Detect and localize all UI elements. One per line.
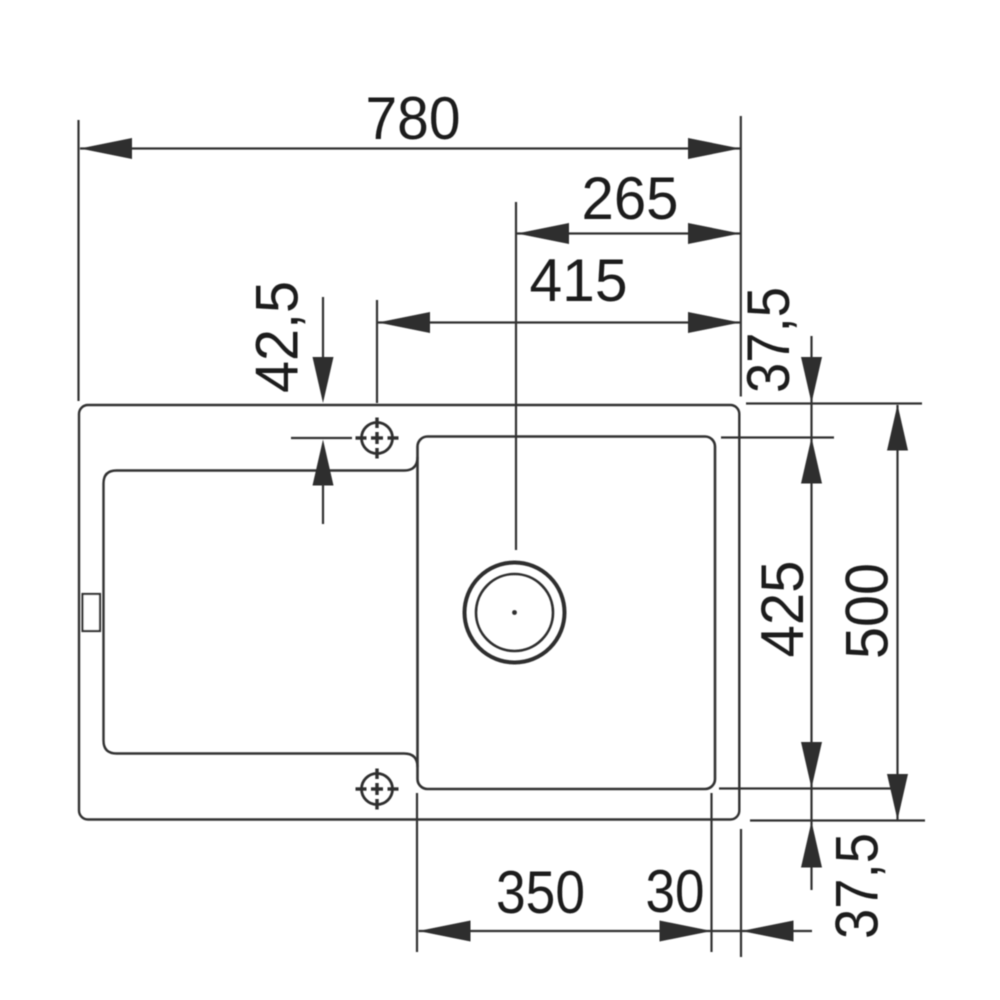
sink bottom edge extension right	[750, 819, 925, 821]
faucet centerline extension	[376, 300, 378, 403]
dim 350 extension right	[710, 793, 712, 952]
svg-text:350: 350	[496, 859, 585, 926]
dim 425 arrow up	[801, 438, 822, 484]
svg-text:500: 500	[834, 563, 901, 659]
dim 500 line	[896, 405, 898, 820]
crosshair left extension dash	[291, 437, 352, 439]
drain center dot	[512, 610, 517, 615]
dim 42,5 arrow down	[313, 357, 334, 403]
dim 30 extension right	[740, 829, 742, 957]
svg-text:42,5: 42,5	[244, 281, 311, 393]
dim 780 extension left	[77, 120, 79, 401]
bowl bottom edge extension right	[719, 787, 892, 789]
dim 415 line	[378, 321, 740, 323]
drainer board outline	[104, 457, 418, 767]
bowl outline	[418, 437, 716, 790]
bowl top edge extension right	[721, 436, 834, 438]
svg-text:780: 780	[366, 85, 461, 152]
faucet hole top crosshair	[356, 418, 399, 459]
dim right extension line (780/265/415)	[740, 116, 742, 397]
dim 415 arrow right	[688, 312, 740, 333]
dim 37,5/425/37,5 vertical line	[810, 336, 812, 890]
dim 415 arrow left	[378, 312, 430, 333]
dim 37,5 bottom arrow up	[801, 822, 822, 868]
dim 350 arrow right	[660, 921, 712, 942]
overflow notch	[83, 594, 101, 631]
drain centerline	[515, 202, 517, 550]
dim 37,5 top arrow down	[801, 357, 822, 403]
dim 265 line	[517, 232, 740, 234]
dim 350 extension left	[416, 793, 418, 952]
dim 425 arrow down	[801, 742, 822, 788]
svg-text:425: 425	[749, 561, 816, 658]
faucet hole bottom crosshair	[356, 769, 399, 810]
svg-text:37,5: 37,5	[824, 833, 891, 939]
dim 42,5 lower tail	[322, 484, 324, 524]
dim 30 arrow left-pointing	[742, 921, 794, 942]
drain outer circle	[465, 563, 565, 663]
sink top edge extension right	[746, 402, 922, 404]
dim 42,5 arrow up	[313, 440, 334, 486]
dim 780 arrow right	[688, 138, 740, 159]
dim 780 arrow left	[80, 138, 132, 159]
dim 780 line	[80, 147, 740, 149]
dim 350/30 line	[419, 930, 813, 932]
svg-text:415: 415	[530, 247, 628, 314]
dim 500 arrow up	[887, 405, 908, 451]
dim 42,5 upper tail	[322, 297, 324, 360]
svg-text:37,5: 37,5	[735, 287, 802, 393]
dim 265 arrow left	[517, 223, 569, 244]
drain inner circle	[476, 574, 553, 651]
dim 265 arrow right	[688, 223, 740, 244]
sink outer rim	[79, 405, 739, 820]
svg-text:30: 30	[646, 858, 705, 925]
dim 500 arrow down	[887, 774, 908, 820]
dim 350 arrow left	[419, 921, 471, 942]
svg-text:265: 265	[582, 165, 679, 232]
